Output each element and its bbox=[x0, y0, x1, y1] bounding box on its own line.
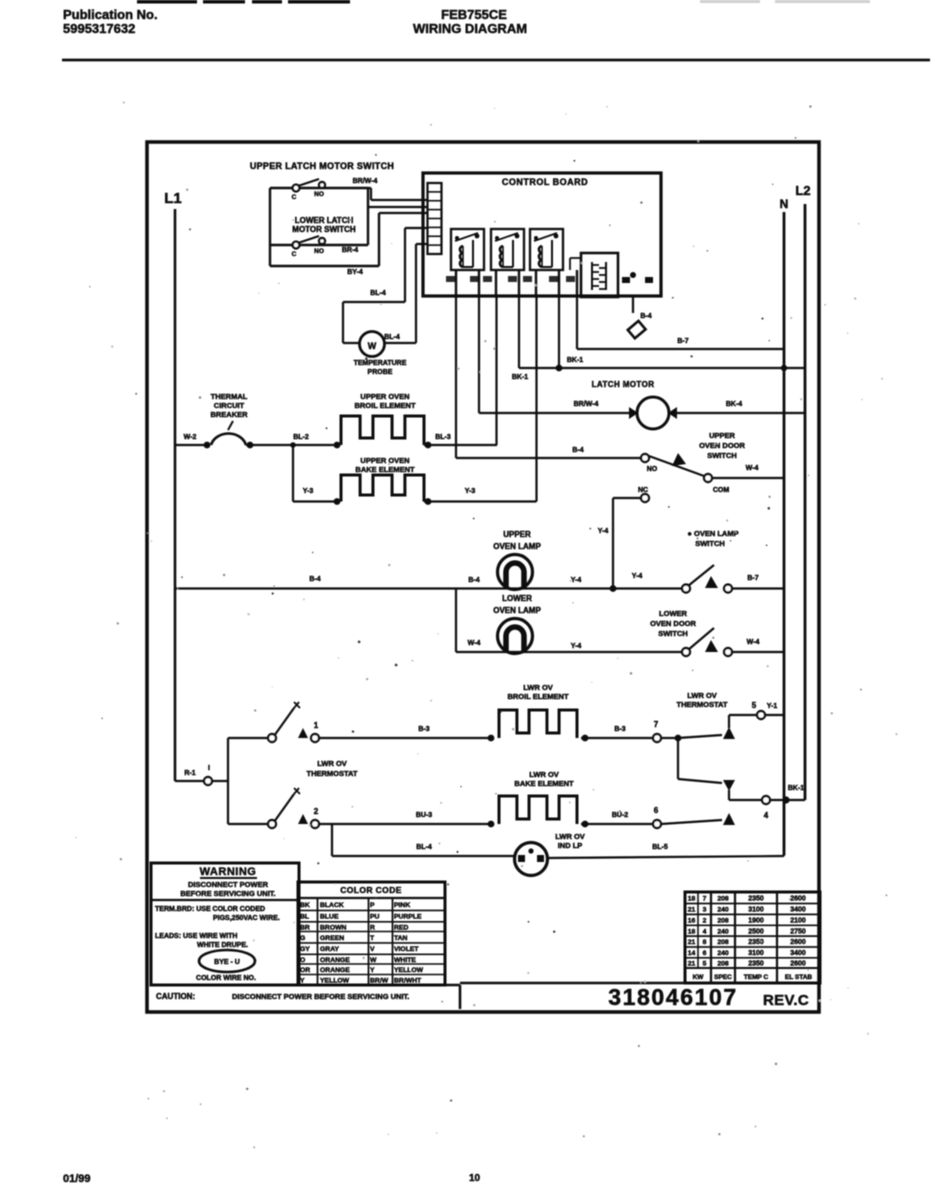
svg-text:BAKE ELEMENT: BAKE ELEMENT bbox=[514, 779, 574, 788]
svg-text:BK-1: BK-1 bbox=[788, 785, 804, 792]
svg-text:SWITCH: SWITCH bbox=[707, 451, 737, 460]
svg-text:21: 21 bbox=[688, 907, 696, 914]
svg-text:2: 2 bbox=[703, 917, 707, 924]
svg-text:BL: BL bbox=[300, 914, 309, 921]
svg-text:OVEN DOOR: OVEN DOOR bbox=[699, 441, 745, 450]
svg-text:16: 16 bbox=[688, 917, 696, 924]
svg-text:I: I bbox=[208, 765, 210, 772]
svg-text:LWR OV: LWR OV bbox=[529, 770, 559, 779]
svg-text:Y: Y bbox=[370, 967, 375, 974]
svg-text:NO: NO bbox=[647, 466, 658, 473]
svg-text:BR-4: BR-4 bbox=[342, 247, 358, 254]
svg-text:TERM.BRD: USE COLOR CODED: TERM.BRD: USE COLOR CODED bbox=[155, 906, 265, 913]
svg-text:W-2: W-2 bbox=[184, 434, 197, 441]
svg-text:COLOR CODE: COLOR CODE bbox=[340, 885, 402, 895]
svg-text:BU-2: BU-2 bbox=[612, 812, 628, 819]
svg-text:R-1: R-1 bbox=[184, 770, 195, 777]
svg-text:318046107: 318046107 bbox=[608, 984, 738, 1010]
svg-text:1: 1 bbox=[314, 721, 319, 730]
svg-text:NO: NO bbox=[314, 248, 324, 255]
svg-text:ORANGE: ORANGE bbox=[320, 957, 350, 964]
svg-text:240: 240 bbox=[717, 907, 729, 914]
svg-text:LWR OV: LWR OV bbox=[317, 759, 347, 768]
svg-text:EL STAB: EL STAB bbox=[785, 974, 813, 981]
svg-text:LWR OV: LWR OV bbox=[555, 832, 585, 841]
svg-text:TAN: TAN bbox=[394, 935, 408, 942]
svg-text:BL-2: BL-2 bbox=[293, 434, 309, 441]
svg-text:B-4: B-4 bbox=[468, 577, 479, 584]
svg-text:L1: L1 bbox=[164, 190, 182, 207]
svg-text:Y-4: Y-4 bbox=[632, 573, 643, 580]
svg-text:8: 8 bbox=[703, 939, 707, 946]
svg-text:OVEN LAMP: OVEN LAMP bbox=[493, 606, 541, 615]
svg-text:WHITE: WHITE bbox=[394, 957, 416, 964]
svg-text:PIGS,250VAC WIRE.: PIGS,250VAC WIRE. bbox=[213, 915, 280, 922]
svg-text:2500: 2500 bbox=[748, 928, 764, 935]
svg-text:BLACK: BLACK bbox=[320, 902, 344, 909]
svg-text:W-4: W-4 bbox=[747, 639, 760, 646]
svg-text:DISCONNECT POWER BEFORE SERVIC: DISCONNECT POWER BEFORE SERVICING UNIT. bbox=[232, 992, 409, 1001]
svg-text:W: W bbox=[370, 957, 377, 964]
svg-text:Publication No.: Publication No. bbox=[63, 7, 158, 22]
svg-text:TEMP C: TEMP C bbox=[744, 974, 769, 981]
svg-text:2600: 2600 bbox=[790, 939, 806, 946]
svg-text:GY: GY bbox=[300, 946, 310, 953]
svg-text:SWITCH: SWITCH bbox=[658, 629, 688, 638]
svg-text:BL-4: BL-4 bbox=[416, 844, 432, 851]
svg-text:BK-4: BK-4 bbox=[726, 401, 742, 408]
svg-text:SPEC: SPEC bbox=[714, 974, 732, 981]
svg-text:3: 3 bbox=[703, 907, 707, 914]
svg-text:GRAY: GRAY bbox=[320, 946, 339, 953]
svg-text:LWR OV: LWR OV bbox=[687, 691, 717, 700]
svg-text:NC: NC bbox=[638, 487, 648, 494]
svg-text:208: 208 bbox=[717, 895, 729, 902]
svg-text:Y-4: Y-4 bbox=[598, 528, 609, 535]
svg-text:BROWN: BROWN bbox=[320, 924, 347, 931]
svg-text:BU-3: BU-3 bbox=[416, 812, 432, 819]
svg-text:CIRCUIT: CIRCUIT bbox=[214, 401, 245, 410]
svg-text:Y-4: Y-4 bbox=[571, 643, 582, 650]
svg-text:240: 240 bbox=[717, 950, 729, 957]
svg-text:N: N bbox=[780, 197, 789, 211]
svg-text:BK-1: BK-1 bbox=[512, 374, 528, 381]
svg-text:BEFORE SERVICING UNIT.: BEFORE SERVICING UNIT. bbox=[180, 889, 275, 898]
svg-text:BK: BK bbox=[300, 902, 310, 909]
svg-text:NO: NO bbox=[314, 191, 324, 198]
svg-text:5995317632: 5995317632 bbox=[63, 21, 135, 36]
svg-text:2600: 2600 bbox=[790, 961, 806, 968]
svg-text:Y-1: Y-1 bbox=[767, 703, 778, 710]
svg-text:7: 7 bbox=[703, 895, 707, 902]
svg-text:W-4: W-4 bbox=[746, 465, 759, 472]
svg-text:21: 21 bbox=[688, 961, 696, 968]
svg-text:CAUTION:: CAUTION: bbox=[156, 992, 195, 1001]
svg-text:BR: BR bbox=[300, 924, 310, 931]
svg-text:7: 7 bbox=[654, 720, 659, 729]
svg-text:TEMPERATURE: TEMPERATURE bbox=[354, 360, 407, 367]
svg-text:W: W bbox=[368, 341, 377, 351]
svg-text:21: 21 bbox=[688, 939, 696, 946]
svg-text:5: 5 bbox=[703, 961, 707, 968]
svg-text:BROIL ELEMENT: BROIL ELEMENT bbox=[354, 401, 416, 410]
svg-text:YELLOW: YELLOW bbox=[394, 967, 424, 974]
svg-text:3400: 3400 bbox=[790, 907, 806, 914]
svg-text:3100: 3100 bbox=[748, 950, 764, 957]
svg-text:GREEN: GREEN bbox=[320, 935, 344, 942]
svg-text:KW: KW bbox=[693, 974, 705, 981]
svg-text:2350: 2350 bbox=[748, 961, 764, 968]
svg-text:BAKE ELEMENT: BAKE ELEMENT bbox=[355, 465, 415, 474]
svg-text:L2: L2 bbox=[795, 183, 810, 198]
svg-text:IND LP: IND LP bbox=[558, 841, 583, 850]
svg-text:UPPER: UPPER bbox=[709, 431, 735, 440]
svg-text:LOWER: LOWER bbox=[502, 594, 532, 603]
svg-text:14: 14 bbox=[688, 950, 696, 957]
svg-text:3400: 3400 bbox=[790, 950, 806, 957]
svg-text:G: G bbox=[300, 935, 305, 942]
svg-text:BY-4: BY-4 bbox=[347, 269, 363, 276]
svg-text:240: 240 bbox=[717, 928, 729, 935]
svg-text:FEB755CE: FEB755CE bbox=[441, 7, 507, 22]
svg-text:208: 208 bbox=[717, 917, 729, 924]
svg-text:Y-3: Y-3 bbox=[465, 488, 476, 495]
svg-text:THERMAL: THERMAL bbox=[211, 392, 248, 401]
svg-text:208: 208 bbox=[717, 939, 729, 946]
svg-text:18: 18 bbox=[688, 895, 696, 902]
svg-text:W-4: W-4 bbox=[468, 640, 481, 647]
svg-text:01/99: 01/99 bbox=[63, 1173, 91, 1185]
svg-text:B-4: B-4 bbox=[309, 576, 320, 583]
svg-text:5: 5 bbox=[752, 701, 757, 710]
svg-text:BL-4: BL-4 bbox=[384, 334, 400, 341]
svg-text:2100: 2100 bbox=[790, 917, 806, 924]
svg-text:THERMOSTAT: THERMOSTAT bbox=[677, 700, 728, 709]
svg-text:208: 208 bbox=[717, 961, 729, 968]
svg-text:COM: COM bbox=[713, 487, 730, 494]
svg-text:10: 10 bbox=[469, 1173, 481, 1184]
svg-text:THERMOSTAT: THERMOSTAT bbox=[307, 769, 358, 778]
svg-text:LOWER: LOWER bbox=[659, 609, 687, 618]
svg-text:RED: RED bbox=[394, 924, 408, 931]
svg-text:BK-1: BK-1 bbox=[567, 357, 583, 364]
svg-text:2: 2 bbox=[314, 807, 319, 816]
svg-text:DISCONNECT POWER: DISCONNECT POWER bbox=[188, 880, 269, 889]
svg-text:BYE - U: BYE - U bbox=[214, 959, 240, 966]
svg-text:CONTROL BOARD: CONTROL BOARD bbox=[502, 177, 588, 187]
svg-text:B-3: B-3 bbox=[418, 726, 429, 733]
svg-text:C: C bbox=[292, 194, 297, 201]
svg-text:UPPER: UPPER bbox=[503, 530, 531, 539]
svg-text:18: 18 bbox=[688, 928, 696, 935]
svg-text:LEADS: USE WIRE WITH: LEADS: USE WIRE WITH bbox=[155, 933, 237, 940]
svg-text:YELLOW: YELLOW bbox=[320, 977, 350, 984]
svg-text:WIRING DIAGRAM: WIRING DIAGRAM bbox=[413, 21, 527, 36]
svg-text:BL-3: BL-3 bbox=[435, 434, 451, 441]
svg-text:COLOR WIRE NO.: COLOR WIRE NO. bbox=[196, 975, 256, 982]
svg-text:4: 4 bbox=[703, 928, 707, 935]
svg-text:OVEN DOOR: OVEN DOOR bbox=[650, 619, 696, 628]
svg-text:2600: 2600 bbox=[790, 895, 806, 902]
svg-text:B-3: B-3 bbox=[614, 726, 625, 733]
svg-text:UPPER LATCH MOTOR SWITCH: UPPER LATCH MOTOR SWITCH bbox=[250, 161, 394, 171]
svg-text:BR/W-4: BR/W-4 bbox=[574, 401, 599, 408]
svg-text:PU: PU bbox=[370, 914, 380, 921]
svg-text:SWITCH: SWITCH bbox=[695, 539, 725, 548]
svg-text:4: 4 bbox=[764, 811, 769, 820]
svg-text:2750: 2750 bbox=[790, 928, 806, 935]
svg-text:BL-4: BL-4 bbox=[370, 290, 386, 297]
svg-text:6: 6 bbox=[703, 950, 707, 957]
svg-text:B-7: B-7 bbox=[747, 575, 758, 582]
svg-text:OVEN LAMP: OVEN LAMP bbox=[493, 542, 541, 551]
svg-text:3100: 3100 bbox=[748, 907, 764, 914]
svg-text:WHITE DRUPE.: WHITE DRUPE. bbox=[197, 942, 248, 949]
svg-text:UPPER OVEN: UPPER OVEN bbox=[360, 456, 409, 465]
svg-text:BROIL ELEMENT: BROIL ELEMENT bbox=[507, 692, 569, 701]
svg-text:Y-3: Y-3 bbox=[303, 488, 314, 495]
svg-text:2350: 2350 bbox=[748, 939, 764, 946]
svg-text:BR/WHT: BR/WHT bbox=[394, 977, 422, 984]
svg-text:REV.C: REV.C bbox=[763, 992, 809, 1009]
svg-text:B-4: B-4 bbox=[572, 447, 583, 454]
svg-text:Y: Y bbox=[300, 977, 305, 984]
svg-text:P: P bbox=[370, 902, 375, 909]
svg-text:V: V bbox=[370, 946, 375, 953]
svg-text:PINK: PINK bbox=[394, 902, 410, 909]
svg-text:BL-5: BL-5 bbox=[652, 844, 668, 851]
svg-text:B-4: B-4 bbox=[640, 313, 651, 320]
svg-text:Y-4: Y-4 bbox=[571, 577, 582, 584]
svg-text:UPPER OVEN: UPPER OVEN bbox=[360, 392, 409, 401]
svg-text:O: O bbox=[300, 957, 305, 964]
svg-text:VIOLET: VIOLET bbox=[394, 946, 419, 953]
svg-text:1900: 1900 bbox=[748, 917, 764, 924]
svg-text:● OVEN LAMP: ● OVEN LAMP bbox=[687, 529, 738, 538]
svg-text:OR: OR bbox=[300, 967, 310, 974]
svg-text:R: R bbox=[370, 924, 375, 931]
svg-text:B-7: B-7 bbox=[677, 338, 688, 345]
svg-text:ORANGE: ORANGE bbox=[320, 967, 350, 974]
svg-text:6: 6 bbox=[654, 806, 659, 815]
svg-text:WARNING: WARNING bbox=[200, 866, 257, 878]
svg-text:C: C bbox=[292, 251, 297, 258]
svg-text:BREAKER: BREAKER bbox=[210, 410, 248, 419]
svg-text:PROBE: PROBE bbox=[368, 369, 393, 376]
svg-text:BR/W-4: BR/W-4 bbox=[353, 178, 378, 185]
svg-text:LOWER LATCH: LOWER LATCH bbox=[295, 216, 354, 225]
svg-text:BLUE: BLUE bbox=[320, 914, 339, 921]
svg-text:2350: 2350 bbox=[748, 895, 764, 902]
svg-text:PURPLE: PURPLE bbox=[394, 914, 422, 921]
svg-text:MOTOR SWITCH: MOTOR SWITCH bbox=[292, 225, 356, 234]
svg-text:LWR OV: LWR OV bbox=[523, 683, 553, 692]
svg-text:BR/W: BR/W bbox=[370, 977, 389, 984]
